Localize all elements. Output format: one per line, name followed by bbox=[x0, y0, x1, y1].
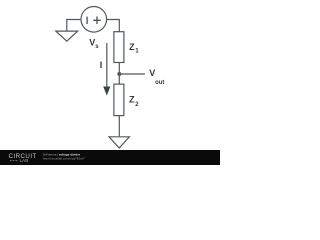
svg-text:⌁⌁⌁ LAB: ⌁⌁⌁ LAB bbox=[10, 158, 29, 163]
svg-text:Z: Z bbox=[129, 42, 135, 52]
svg-text:Z: Z bbox=[129, 94, 135, 104]
svg-text:out: out bbox=[155, 80, 164, 86]
svg-text:V: V bbox=[149, 68, 155, 78]
svg-text:http://circuitlab.com/c/pq762v: http://circuitlab.com/c/pq762vs7 bbox=[43, 157, 85, 161]
svg-text:I: I bbox=[100, 60, 103, 70]
